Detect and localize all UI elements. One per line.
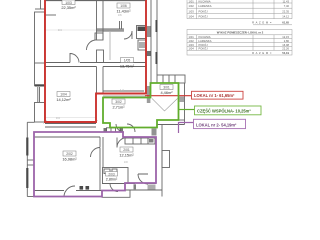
entry band wall stubs xyxy=(104,128,107,132)
table 2: wykaz pomieszczen lokal 2 xyxy=(187,30,292,56)
wall: right exterior beside common room xyxy=(184,83,186,120)
svg-text:ŁAZIENKA: ŁAZIENKA xyxy=(199,4,212,8)
wire xyxy=(35,8,45,10)
wall: corridor verticals xyxy=(96,67,98,94)
svg-text:11,43: 11,43 xyxy=(282,0,289,4)
purple connector line xyxy=(179,123,194,134)
svg-text:12,15m²: 12,15m² xyxy=(119,153,134,158)
svg-text:11,43m²: 11,43m² xyxy=(117,9,132,14)
legend box lokal 1 xyxy=(192,91,244,99)
room label 1/06 xyxy=(117,3,132,14)
svg-text:3.6: 3.6 xyxy=(118,13,122,17)
svg-text:CZĘŚĆ WSPÓLNA- 10,25m²: CZĘŚĆ WSPÓLNA- 10,25m² xyxy=(197,108,251,113)
door arc room 2/02 bottom xyxy=(64,186,75,196)
door arc bathroom xyxy=(110,184,118,192)
bathroom fixtures xyxy=(104,169,110,174)
entrance double door leaves xyxy=(152,99,178,112)
door arc room 1/03 xyxy=(86,40,95,50)
window bottom wall marks xyxy=(80,186,84,190)
svg-text:14,12m²: 14,12m² xyxy=(56,97,71,102)
svg-text:1/03: 1/03 xyxy=(189,9,195,13)
dark wall piece right of shaft xyxy=(147,26,151,37)
red connector line xyxy=(145,95,192,97)
svg-text:1/03: 1/03 xyxy=(189,43,195,47)
svg-text:2,80: 2,80 xyxy=(284,39,290,43)
door arcs to apartments xyxy=(116,124,124,132)
svg-text:61,65: 61,65 xyxy=(282,21,289,25)
wall piece left of green room xyxy=(147,86,151,103)
svg-text:13,75m²: 13,75m² xyxy=(120,64,135,69)
wall: vertical between 2/02 and 2/01 xyxy=(99,137,101,147)
table 1: wykaz pomieszczen lokal 1 (top cut off) xyxy=(187,0,292,25)
wall bottom edge lokal2 right xyxy=(125,189,162,191)
window left wall lower 1 xyxy=(26,138,28,156)
purple boundary lokal 2 xyxy=(34,132,156,197)
window bars alcove xyxy=(35,84,44,86)
room label 3/02 xyxy=(112,99,125,110)
svg-text:2,71m²: 2,71m² xyxy=(112,105,125,110)
svg-text:2,80m²: 2,80m² xyxy=(106,177,118,181)
legend box lokal 2 xyxy=(194,119,246,128)
svg-text:1/04: 1/04 xyxy=(189,47,195,51)
dimension tick marks xyxy=(44,121,98,124)
wall: shaft left middle xyxy=(35,63,45,86)
svg-text:ŁAZIENKA: ŁAZIENKA xyxy=(199,39,212,43)
svg-text:12,15: 12,15 xyxy=(282,35,289,39)
closet cells at lobby bottom xyxy=(107,128,121,132)
svg-text:54,19: 54,19 xyxy=(282,51,289,55)
wall step below bathroom xyxy=(102,191,130,198)
balcony top-left xyxy=(35,12,45,63)
svg-text:22,35m²: 22,35m² xyxy=(61,5,76,10)
svg-text:3/01: 3/01 xyxy=(163,86,170,90)
dimension ticks and tiny texts xyxy=(56,13,128,164)
svg-text:22,26: 22,26 xyxy=(282,47,289,51)
red boundary lokal 1 xyxy=(45,0,146,122)
svg-text:1/01: 1/01 xyxy=(189,0,195,4)
wall: bottom right of lokal2 xyxy=(102,183,135,185)
svg-text:R A Z E M =: R A Z E M = xyxy=(252,21,272,25)
svg-text:1/01: 1/01 xyxy=(189,35,195,39)
svg-text:1/04: 1/04 xyxy=(189,15,195,19)
shaft dark blocks xyxy=(138,27,146,32)
svg-text:1/02: 1/02 xyxy=(189,4,195,8)
room label 2/02 xyxy=(62,151,77,162)
svg-text:3.4: 3.4 xyxy=(56,116,60,120)
window left wall lower 2 xyxy=(26,168,28,188)
room label 1/05 xyxy=(120,58,135,69)
svg-text:LOKAL nr 1- 61,65m²: LOKAL nr 1- 61,65m² xyxy=(194,93,235,98)
svg-text:14,12: 14,12 xyxy=(282,15,289,19)
wall: bottom of lokal2 left room xyxy=(34,190,64,192)
svg-text:KUCHNIA: KUCHNIA xyxy=(199,35,211,39)
wall step to lokal2 xyxy=(27,121,34,123)
room label 2/01 xyxy=(119,147,134,158)
balcony lower left xyxy=(35,103,45,123)
svg-text:2/03: 2/03 xyxy=(108,172,114,176)
door arc bottom xyxy=(138,174,148,184)
dark window block right wall of lobby xyxy=(180,97,185,103)
window right wall top marks xyxy=(156,20,158,32)
wall: horizontal y62 between top rooms and lower xyxy=(45,62,70,64)
dark wall block below green corner xyxy=(152,129,157,136)
svg-text:22,35: 22,35 xyxy=(282,9,289,13)
room label 1/03 xyxy=(61,0,76,10)
svg-text:1/02: 1/02 xyxy=(189,39,195,43)
wall: right exterior lokal2 xyxy=(161,128,163,190)
dimension extension line xyxy=(109,32,111,60)
svg-text:3.0: 3.0 xyxy=(124,160,128,164)
bathroom 2/03 walls xyxy=(103,168,129,184)
room label 3/01 xyxy=(160,85,173,96)
door arc into room 2/01 xyxy=(117,138,127,148)
door arc room 1/05 xyxy=(124,31,132,39)
wall: between lokal1 and lokal2 corridor band xyxy=(45,123,96,125)
svg-text:16,98m²: 16,98m² xyxy=(62,157,77,162)
svg-text:R A Z E M =: R A Z E M = xyxy=(252,51,272,55)
green connector line xyxy=(179,109,195,111)
room label 2/03 xyxy=(106,172,119,182)
wall: left exterior lokal2 xyxy=(26,122,28,196)
wire xyxy=(45,14,56,16)
wall: horizontal between 1/06 and 1/05 xyxy=(97,28,125,30)
svg-text:1/05: 1/05 xyxy=(124,59,131,63)
legend box czesc wspolna xyxy=(195,106,262,115)
door arc room 1/03 bottom xyxy=(70,54,79,63)
svg-text:KUCHNIA: KUCHNIA xyxy=(199,0,211,4)
window glazing dark marks xyxy=(26,20,184,190)
svg-text:4,46m²: 4,46m² xyxy=(160,90,173,95)
door arc room 2/02 xyxy=(91,148,101,158)
svg-text:1.2: 1.2 xyxy=(120,88,124,92)
top cut wall line xyxy=(45,0,146,2)
green boundary common area xyxy=(103,83,179,128)
stairs entry platform xyxy=(157,75,185,83)
svg-text:16,98: 16,98 xyxy=(282,43,289,47)
wall: top of room 2/02 xyxy=(34,136,100,138)
svg-text:7,40: 7,40 xyxy=(284,4,290,8)
wall: right exterior top xyxy=(150,0,152,75)
wire xyxy=(40,0,42,9)
wall under red boundary xyxy=(103,90,144,92)
wall: interior vertical between room 1/03 and 1/06 xyxy=(96,0,98,40)
kitchen counter row room 2/01 xyxy=(125,138,155,144)
dark wall bits bottom right xyxy=(148,185,156,190)
kitchen sink dark mark xyxy=(149,139,154,143)
svg-text:LOKAL nr 2- 54,19m²: LOKAL nr 2- 54,19m² xyxy=(196,122,237,127)
shaft outline xyxy=(137,26,147,39)
room label 1/04 xyxy=(56,92,71,103)
downpipe double line xyxy=(37,87,39,102)
